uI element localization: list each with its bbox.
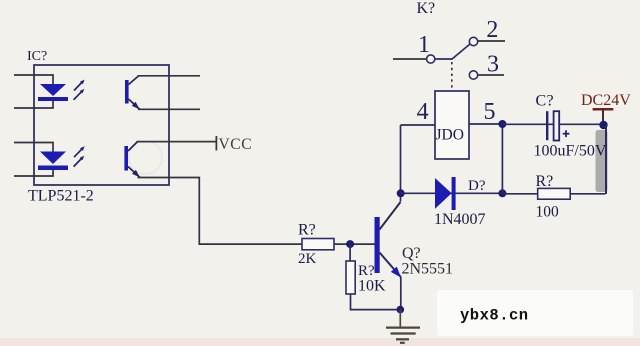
resistor R? 100: [538, 188, 571, 199]
svg-text:D?: D?: [468, 178, 486, 194]
LED D-ch1: [40, 84, 66, 96]
wire coil pin4: [401, 124, 436, 126]
LED D-ch2 cathode bar: [38, 166, 68, 171]
watermark background panel: [437, 290, 633, 336]
svg-text:1: 1: [418, 32, 430, 58]
wire contact pin 1: [393, 58, 427, 60]
node DC24V junction: [599, 121, 607, 129]
label + polarity: [563, 130, 570, 137]
node base junction: [346, 240, 354, 248]
resistor R? 10K: [346, 261, 355, 294]
diode D? cathode bar: [452, 177, 456, 210]
svg-text:2: 2: [486, 17, 498, 43]
wire ch1 collector out: [138, 75, 201, 77]
wire R1 to base: [334, 243, 375, 245]
contact circle pin2: [469, 37, 477, 45]
svg-text:Q?: Q?: [402, 245, 421, 262]
svg-text:K?: K?: [417, 0, 436, 17]
svg-text:ybx8.cn: ybx8.cn: [460, 307, 529, 325]
transistor Q? emitter: [380, 253, 401, 278]
wire coil pin5: [469, 123, 502, 125]
gray scrollbar artifact: [596, 130, 608, 192]
svg-text:2N5551: 2N5551: [402, 261, 454, 278]
contact circle pin1: [427, 55, 435, 63]
svg-text:DC24V: DC24V: [581, 92, 631, 109]
node diode anode junction: [397, 189, 405, 197]
DC24V terminal stem: [602, 109, 604, 122]
svg-text:JDO: JDO: [436, 127, 464, 144]
bottom pink strip: [0, 338, 640, 346]
svg-text:R?: R?: [298, 222, 316, 239]
LED D-ch2: [40, 152, 66, 165]
svg-text:100: 100: [536, 204, 560, 221]
wire diode row: [401, 192, 503, 194]
LED D-ch2 anode wire: [14, 143, 53, 152]
svg-text:2K: 2K: [298, 251, 317, 267]
svg-text:VCC: VCC: [219, 136, 253, 153]
LED D-ch1 anode wire: [14, 75, 53, 84]
capacitor C? plate right: [554, 111, 560, 140]
ground: [386, 328, 420, 343]
phototransistor T-ch2 emitter: [128, 167, 140, 178]
LED D-ch1 cathode wire: [14, 101, 53, 108]
phototransistor T-ch2 base bar: [124, 146, 128, 171]
wire ch2 emitter elbow down to R1: [138, 178, 303, 245]
resistor R? 2K: [302, 239, 334, 250]
svg-text:IC?: IC?: [27, 49, 47, 64]
arrowhead Q? emitter: [391, 267, 401, 278]
relay coil K? JDO: [435, 91, 469, 159]
capacitor C? plate left: [546, 111, 548, 140]
transistor Q? 2N5551 base bar: [375, 217, 380, 273]
wire ch1 emitter out: [138, 108, 200, 110]
arrowhead T-ch2 emitter: [132, 170, 140, 177]
svg-text:1N4007: 1N4007: [434, 211, 486, 228]
wire R3 bottom to ground row: [351, 294, 401, 310]
diode D? 1N4007: [435, 178, 452, 209]
ground stem: [399, 310, 401, 327]
faint highlight circle around ch2 phototransistor: [129, 141, 162, 174]
svg-text:5: 5: [484, 99, 496, 125]
VCC tick: [215, 136, 217, 151]
light arrow 1b: [74, 89, 85, 100]
node diode cathode junction: [498, 189, 506, 197]
wire R2 to right drop: [570, 193, 605, 195]
svg-text:TLP521-2: TLP521-2: [28, 188, 94, 205]
wire contact pin 3: [478, 74, 504, 76]
wire right drop: [605, 125, 607, 194]
light arrow 1a: [74, 80, 85, 91]
wire ch2 collector to VCC: [137, 141, 217, 143]
wire contact pin 2: [478, 40, 505, 42]
phototransistor T-ch1 base bar: [125, 80, 129, 104]
svg-text:C?: C?: [536, 93, 554, 110]
light arrow 2a: [74, 146, 85, 157]
LED D-ch2 cathode wire: [14, 170, 53, 176]
wire pin5 drop: [501, 124, 503, 193]
wire diode junction to R2: [502, 193, 537, 195]
DC24V terminal bar: [593, 108, 614, 111]
contact circle pin3: [469, 71, 477, 79]
svg-text:100uF/50V: 100uF/50V: [534, 143, 607, 160]
light arrow 2b: [74, 156, 85, 167]
wire base junction down to R3: [349, 244, 351, 261]
LED D-ch1 cathode bar: [38, 97, 68, 101]
svg-text:3: 3: [487, 52, 499, 78]
optocoupler IC? TLP521-2 body: [34, 65, 169, 185]
svg-text:R?: R?: [536, 173, 554, 190]
wire collector riser: [400, 125, 402, 202]
dashed link armature to coil: [451, 62, 453, 91]
svg-text:4: 4: [417, 99, 429, 125]
svg-text:10K: 10K: [358, 278, 386, 295]
relay armature: [435, 44, 470, 59]
wire top supply row: [502, 123, 605, 125]
phototransistor T-ch1 collector: [129, 76, 139, 85]
wire emitter drop: [400, 277, 402, 310]
phototransistor T-ch1 emitter: [129, 99, 140, 109]
phototransistor T-ch2 collector: [128, 142, 138, 151]
transistor Q? collector: [380, 202, 401, 230]
node ground junction: [397, 306, 405, 314]
node pin5 junction: [498, 120, 506, 128]
arrowhead T-ch1 emitter: [132, 102, 140, 110]
